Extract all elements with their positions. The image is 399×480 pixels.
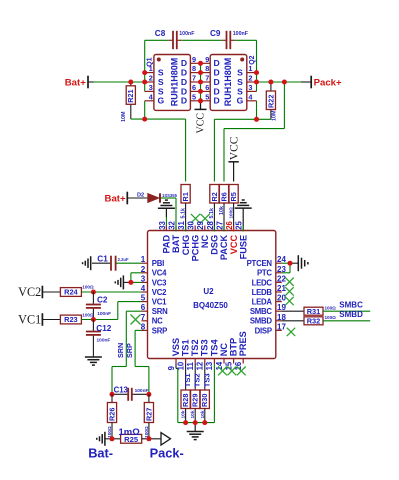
svg-text:25: 25 xyxy=(235,220,244,229)
svg-text:30: 30 xyxy=(187,220,196,229)
wire R23 junction xyxy=(81,319,117,321)
ground TS network xyxy=(187,432,204,440)
svg-text:2: 2 xyxy=(248,74,252,83)
wire to VC1 pin xyxy=(118,301,142,303)
svg-text:100Ω: 100Ω xyxy=(325,306,337,311)
capacitor C1 2.2uF xyxy=(92,256,116,271)
diode D2 1SS355 xyxy=(148,193,160,202)
svg-text:PBI: PBI xyxy=(152,259,164,268)
svg-text:11: 11 xyxy=(186,361,195,370)
wire resistor to ground row xyxy=(194,409,196,423)
no-connect X pin15 BTP xyxy=(228,367,237,376)
ground on PAD xyxy=(158,200,175,208)
svg-text:Bat-: Bat- xyxy=(88,446,113,461)
no-connect X pin29 NC xyxy=(201,214,210,223)
ground at VC3 xyxy=(115,275,123,289)
ground at Bat- xyxy=(97,432,105,446)
svg-text:SMBD: SMBD xyxy=(339,310,363,319)
svg-text:12: 12 xyxy=(196,361,205,370)
svg-text:100Ω: 100Ω xyxy=(144,426,149,438)
svg-text:D2: D2 xyxy=(137,192,144,198)
wire pin33 PAD green xyxy=(165,217,167,231)
svg-text:VC2: VC2 xyxy=(152,288,167,297)
svg-text:PAD: PAD xyxy=(162,234,172,253)
svg-text:R29: R29 xyxy=(191,394,200,407)
svg-text:C13: C13 xyxy=(114,385,129,394)
wire SRN down xyxy=(125,311,127,366)
svg-text:RUH1H80M: RUH1H80M xyxy=(169,58,179,107)
svg-text:TS2: TS2 xyxy=(190,339,200,356)
capacitor C12 100nF xyxy=(86,320,101,357)
resistor R30 10k xyxy=(200,390,209,409)
wire SRP to C13 xyxy=(148,367,150,395)
Q2 pin numbers xyxy=(205,55,253,102)
resistor R29 10k xyxy=(191,390,200,409)
terminal Pack- arrow xyxy=(161,433,171,445)
svg-text:5: 5 xyxy=(205,92,209,101)
svg-text:R27: R27 xyxy=(144,408,153,421)
U2 left pin names xyxy=(152,259,168,335)
svg-text:27: 27 xyxy=(215,221,224,230)
svg-text:C8: C8 xyxy=(155,29,166,38)
wire SRN stub xyxy=(126,310,141,312)
U2 right pin numbers 24-17 xyxy=(277,255,286,331)
wire to R27 xyxy=(148,394,150,402)
svg-text:U2: U2 xyxy=(203,287,214,296)
svg-text:5: 5 xyxy=(192,92,196,101)
svg-text:Bat+: Bat+ xyxy=(65,77,86,88)
wire to ground xyxy=(124,281,131,283)
wire SMBC pin to R31 xyxy=(282,310,304,312)
wire VC1 to R23 xyxy=(43,319,60,321)
wire R5 lead to pin 26 xyxy=(233,203,235,226)
svg-text:100Ω: 100Ω xyxy=(107,426,112,438)
resistor R22 10M xyxy=(266,91,275,110)
svg-text:R26: R26 xyxy=(107,408,116,421)
capacitor C9 100nF xyxy=(222,31,235,49)
wire C8 left xyxy=(145,39,169,41)
wire VC4 to VC3 xyxy=(130,273,132,283)
wire VC2 to R24 xyxy=(43,291,60,293)
svg-text:Pack-: Pack- xyxy=(150,446,184,461)
resistor R5 100&#937; xyxy=(229,185,238,204)
junction xyxy=(282,80,287,85)
wire R22 top lead xyxy=(270,82,272,91)
wire SRP jog xyxy=(135,366,149,368)
svg-text:TS2: TS2 xyxy=(193,373,202,387)
wire TS ground row xyxy=(178,422,215,424)
svg-text:32: 32 xyxy=(167,220,176,229)
svg-text:R21: R21 xyxy=(126,89,135,102)
svg-text:NC: NC xyxy=(219,343,229,357)
no-connect X pin20 LEDA xyxy=(285,297,293,305)
wire Q1 source column xyxy=(144,72,146,91)
junction xyxy=(91,317,96,322)
resistor R25 1mOhm xyxy=(121,434,142,444)
wire R21 bottom lead xyxy=(130,104,132,119)
wire Q2 gate down xyxy=(256,101,258,120)
svg-text:SRP: SRP xyxy=(125,343,134,358)
wire CHG line down to R1 xyxy=(185,119,187,181)
wire Bat+ to D2 xyxy=(128,197,148,199)
no-connect X pin30 PCHG xyxy=(191,214,200,223)
svg-text:PCHG: PCHG xyxy=(190,235,200,262)
junction xyxy=(146,436,151,441)
svg-text:VC1: VC1 xyxy=(152,298,167,307)
svg-text:TS3: TS3 xyxy=(200,339,210,356)
wire SRN jog xyxy=(112,366,126,368)
wire VC3 stub xyxy=(131,281,142,283)
U2 top pin names xyxy=(162,234,249,261)
junction xyxy=(142,117,147,122)
svg-text:G: G xyxy=(157,96,164,106)
wire Bat- to R25 xyxy=(105,438,120,440)
svg-text:BQ40Z50: BQ40Z50 xyxy=(193,301,228,310)
wire R25 to Pack- xyxy=(142,438,161,440)
terminal Pack+ xyxy=(310,76,312,89)
junction xyxy=(198,70,203,75)
junction xyxy=(146,392,151,397)
capacitor C13 100nF xyxy=(112,388,149,401)
svg-text:28: 28 xyxy=(206,220,215,229)
svg-text:TS1: TS1 xyxy=(183,373,192,388)
wire SMBC net xyxy=(323,310,370,312)
svg-text:10M: 10M xyxy=(121,111,127,122)
svg-text:10k: 10k xyxy=(181,410,187,418)
junction xyxy=(91,290,96,295)
svg-text:7: 7 xyxy=(141,313,146,322)
svg-text:C12: C12 xyxy=(96,324,111,333)
resistor R32 xyxy=(304,317,323,326)
transistor Q1 RUH1H80M xyxy=(145,55,201,111)
svg-text:PTCEN: PTCEN xyxy=(247,259,273,268)
junction xyxy=(110,392,115,397)
svg-text:8: 8 xyxy=(192,64,196,73)
svg-text:1mΩ: 1mΩ xyxy=(119,427,141,438)
svg-text:26: 26 xyxy=(225,220,234,229)
wire gate DSG line xyxy=(214,118,271,120)
svg-text:3: 3 xyxy=(248,83,252,92)
svg-text:TS1: TS1 xyxy=(181,339,191,356)
svg-text:G: G xyxy=(237,96,244,106)
wire Bat+ terminal lead xyxy=(89,81,94,83)
svg-text:VCC: VCC xyxy=(195,113,206,134)
no-connect X pin22 LEDC xyxy=(285,278,293,286)
svg-text:7: 7 xyxy=(205,74,209,83)
svg-text:SMBC: SMBC xyxy=(339,300,363,309)
resistor R6 10k xyxy=(219,185,228,204)
wire resistor to ground row xyxy=(204,409,206,423)
U2 left pin numbers 1-8 xyxy=(141,255,146,331)
svg-text:R6: R6 xyxy=(219,192,228,201)
capacitor C2 100nF xyxy=(86,292,101,320)
wire VC4 stub xyxy=(131,272,142,274)
wire R21 top lead xyxy=(130,82,132,86)
junction xyxy=(110,436,115,441)
ground at PTCEN xyxy=(298,255,308,271)
wire TS1 to resistor xyxy=(185,364,187,391)
no-connect X pin17 DISP xyxy=(287,328,295,336)
wire to R26 xyxy=(111,394,113,402)
junction xyxy=(142,70,147,75)
svg-text:VSS: VSS xyxy=(171,338,181,356)
svg-text:C9: C9 xyxy=(210,29,221,38)
terminal VC1 xyxy=(41,313,43,326)
ground at C12 xyxy=(85,357,102,365)
junction xyxy=(268,80,273,85)
junction xyxy=(128,80,133,85)
resistor R27 100ohm xyxy=(144,403,153,423)
svg-text:4: 4 xyxy=(149,92,154,101)
svg-text:DSG: DSG xyxy=(210,235,220,255)
wire resistor to ground row xyxy=(185,409,187,423)
svg-text:PACK: PACK xyxy=(219,234,229,260)
svg-text:VC4: VC4 xyxy=(152,269,167,278)
wire DSG line down to R2 xyxy=(213,119,215,181)
svg-text:VC2: VC2 xyxy=(18,285,41,299)
ground on FUSE xyxy=(235,200,252,208)
wire VSS stub xyxy=(175,364,177,369)
svg-text:3: 3 xyxy=(149,83,153,92)
svg-text:Bat+: Bat+ xyxy=(105,194,126,205)
junction xyxy=(254,117,259,122)
svg-text:100Ω: 100Ω xyxy=(325,315,337,320)
junction xyxy=(254,70,259,75)
wire up to VC1 pin xyxy=(117,302,119,320)
svg-text:100nF: 100nF xyxy=(97,311,111,317)
junction xyxy=(193,420,198,425)
junction xyxy=(183,420,188,425)
wire C8 to C9 xyxy=(181,39,222,41)
wire R24 to VC2 pin xyxy=(81,291,141,293)
terminal Bat+ xyxy=(87,76,89,89)
resistor R1 5.1k xyxy=(181,185,190,204)
svg-text:29: 29 xyxy=(196,220,205,229)
wire pin25 FUSE to ground xyxy=(242,209,244,227)
wire PTC xyxy=(282,272,290,274)
svg-text:BAT: BAT xyxy=(171,234,181,253)
svg-text:SMBC: SMBC xyxy=(250,307,273,316)
svg-text:VC3: VC3 xyxy=(152,278,167,287)
svg-text:13: 13 xyxy=(205,361,214,370)
svg-text:SRP: SRP xyxy=(152,326,167,335)
wire resistor lead to pin xyxy=(213,203,215,226)
wire Q1 gate down xyxy=(144,101,146,119)
wire PACK line down to R6 xyxy=(223,129,225,182)
wire gate CHG line xyxy=(131,118,186,120)
no-connect X pin7 NC xyxy=(131,315,141,325)
wire resistor lead to pin xyxy=(223,203,225,226)
junction xyxy=(254,80,259,85)
wire drain column VCC node xyxy=(200,63,202,101)
svg-text:NC: NC xyxy=(152,317,163,326)
svg-text:10k: 10k xyxy=(190,410,196,418)
svg-text:100nF: 100nF xyxy=(97,338,111,344)
svg-text:100Ω: 100Ω xyxy=(82,285,94,290)
svg-text:SRN: SRN xyxy=(152,307,168,316)
svg-text:R31: R31 xyxy=(307,307,321,316)
svg-text:LEDA: LEDA xyxy=(252,298,273,307)
resistor R2 5.1k xyxy=(210,185,219,204)
wire to ground xyxy=(194,423,196,432)
junction xyxy=(128,280,133,285)
resistor R28 10k xyxy=(181,390,190,409)
svg-text:TS4: TS4 xyxy=(209,339,219,357)
resistor R26 100ohm xyxy=(107,403,116,423)
terminal VC2 xyxy=(41,286,43,299)
wire VCC supply stem xyxy=(200,101,202,110)
wire down to pin 32 xyxy=(175,198,177,226)
svg-text:100Ω: 100Ω xyxy=(228,207,233,219)
svg-text:22: 22 xyxy=(277,274,286,283)
junction xyxy=(198,98,203,103)
svg-text:10k: 10k xyxy=(200,410,206,418)
svg-text:R22: R22 xyxy=(266,95,275,108)
capacitor C8 100nF xyxy=(169,31,181,49)
resistor R31 xyxy=(304,307,323,316)
no-connect X pin21 LEDB xyxy=(285,287,293,295)
svg-text:17: 17 xyxy=(277,322,286,331)
wire SMBD pin to R32 xyxy=(282,320,304,322)
svg-text:CHG: CHG xyxy=(181,235,191,255)
wire pin33 PAD to ground xyxy=(165,208,167,217)
svg-text:Pack+: Pack+ xyxy=(314,77,342,88)
svg-text:R2: R2 xyxy=(210,192,219,201)
svg-text:D: D xyxy=(181,96,187,106)
svg-text:6: 6 xyxy=(205,83,209,92)
no-connect X pin14 NC xyxy=(218,367,227,376)
svg-text:Q2: Q2 xyxy=(249,55,256,64)
svg-text:9: 9 xyxy=(205,55,209,64)
terminal Bat+ xyxy=(126,192,128,205)
supply VCC xyxy=(195,109,207,133)
svg-text:6: 6 xyxy=(192,83,196,92)
svg-text:Q1: Q1 xyxy=(147,57,154,66)
U2 right pin names xyxy=(247,259,273,335)
wire Bat+ to Q1 sources xyxy=(94,81,145,83)
junction xyxy=(198,61,203,66)
svg-text:SMBD: SMBD xyxy=(250,317,273,326)
resistor R24 xyxy=(60,288,81,297)
op-amp U2 BQ40Z50 IC body xyxy=(148,231,276,359)
wire R26 to Bat- xyxy=(111,423,113,439)
svg-text:LEDC: LEDC xyxy=(252,278,273,287)
wire Bat+ up to C8 xyxy=(144,40,146,72)
no-connect X pin16 PRES xyxy=(237,367,246,376)
transistor Q2 RUH1H80M xyxy=(201,55,257,111)
wire VSS down xyxy=(177,368,179,422)
svg-text:100nF: 100nF xyxy=(179,31,195,37)
wire Pack+ down xyxy=(283,82,285,129)
svg-text:2: 2 xyxy=(149,74,153,83)
junction xyxy=(198,80,203,85)
U2 pin leads xyxy=(142,226,282,364)
wire resistor lead to pin xyxy=(185,203,187,226)
Q1 pin numbers xyxy=(149,55,196,102)
svg-text:R28: R28 xyxy=(181,394,190,407)
svg-text:FUSE: FUSE xyxy=(238,235,248,260)
svg-text:C2: C2 xyxy=(97,296,108,305)
junction xyxy=(198,89,203,94)
svg-text:9: 9 xyxy=(167,365,176,370)
resistor R23 xyxy=(60,315,81,324)
svg-text:SRN: SRN xyxy=(116,343,125,358)
svg-text:14: 14 xyxy=(215,361,224,370)
svg-text:10M: 10M xyxy=(271,110,277,121)
svg-text:R5: R5 xyxy=(229,192,238,201)
svg-text:DISP: DISP xyxy=(255,326,272,335)
wire PTC up to ground xyxy=(289,263,291,273)
junction xyxy=(202,420,207,425)
svg-text:33: 33 xyxy=(158,220,167,229)
svg-text:100nF: 100nF xyxy=(135,388,149,394)
svg-text:9: 9 xyxy=(192,55,196,64)
wire SMBD net xyxy=(323,320,370,322)
wire TS4 down xyxy=(213,364,215,423)
junction xyxy=(288,261,293,266)
wire D2 to BAT pin xyxy=(161,197,176,199)
resistor R21 10M xyxy=(126,86,135,105)
supply VCC xyxy=(228,136,240,181)
wire TS2 to resistor xyxy=(194,364,196,391)
svg-text:R23: R23 xyxy=(64,315,78,324)
wire Q2 sources to Pack+ xyxy=(257,81,302,83)
svg-text:R30: R30 xyxy=(200,394,209,407)
svg-text:4: 4 xyxy=(248,92,253,101)
svg-text:VC1: VC1 xyxy=(18,312,41,326)
svg-text:D: D xyxy=(213,96,219,106)
svg-text:R1: R1 xyxy=(181,192,190,201)
svg-text:PTC: PTC xyxy=(257,269,272,278)
wire PTCEN to ground xyxy=(282,262,290,264)
svg-text:VCC: VCC xyxy=(229,234,239,254)
wire R22 bottom lead xyxy=(270,110,272,120)
wire Pack+ terminal lead xyxy=(301,81,311,83)
svg-text:R24: R24 xyxy=(64,288,78,297)
svg-text:100nF: 100nF xyxy=(233,31,249,37)
svg-text:31: 31 xyxy=(177,220,186,229)
wire PACK line xyxy=(224,128,284,130)
green pin connection ticks xyxy=(176,226,243,232)
wire R27 to Pack- xyxy=(148,423,150,439)
svg-text:7: 7 xyxy=(192,74,196,83)
svg-text:8: 8 xyxy=(205,64,209,73)
svg-text:LEDB: LEDB xyxy=(252,288,273,297)
svg-text:100Ω: 100Ω xyxy=(82,312,94,317)
U2 bottom pin numbers 9-16 xyxy=(167,361,243,370)
U2 top pin numbers 33-25 xyxy=(158,220,244,229)
svg-text:NC: NC xyxy=(200,234,210,248)
wire C9 right xyxy=(235,39,257,41)
svg-text:PRES: PRES xyxy=(238,331,248,356)
wire SRP stub xyxy=(135,329,141,331)
svg-text:2.2uF: 2.2uF xyxy=(118,257,129,262)
wire Q2 source column xyxy=(256,72,258,91)
svg-text:BTP: BTP xyxy=(229,338,239,356)
svg-text:15: 15 xyxy=(224,361,233,370)
wire SRP down xyxy=(134,330,136,366)
svg-text:TS3: TS3 xyxy=(202,373,211,387)
wire SRN to C13 xyxy=(111,367,113,395)
svg-text:VCC: VCC xyxy=(229,136,241,160)
wire C1 to PBI xyxy=(116,262,141,264)
junction xyxy=(142,80,147,85)
wire TS3 to resistor xyxy=(204,364,206,391)
U2 bottom pin names xyxy=(171,331,248,356)
svg-text:R32: R32 xyxy=(307,317,321,326)
wire VSS jog xyxy=(176,367,178,369)
svg-text:C1: C1 xyxy=(97,255,108,264)
